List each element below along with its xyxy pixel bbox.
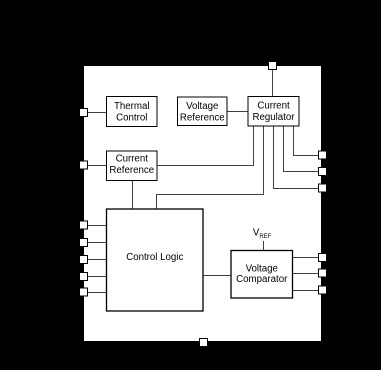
pin left 1: [80, 109, 88, 117]
block Current Reference: [107, 151, 158, 181]
svg-text:Reference: Reference: [180, 113, 225, 124]
svg-text:Regulator: Regulator: [252, 112, 295, 123]
pin right 2: [319, 168, 327, 176]
svg-text:Thermal: Thermal: [114, 101, 150, 112]
svg-text:Comparator: Comparator: [236, 274, 288, 285]
block Voltage Reference: [178, 97, 228, 126]
pin right 1: [319, 151, 327, 159]
pin right 4: [319, 254, 327, 262]
wire: Current Regulator to right pin 3: [274, 126, 319, 189]
wire: VREF stub to Voltage Comparator: [263, 241, 265, 251]
wire: left pin 5 to Control Logic: [84, 259, 107, 261]
pin left 6: [80, 273, 88, 281]
svg-text:Voltage: Voltage: [186, 101, 218, 112]
block Current Regulator: [248, 97, 299, 127]
pin right 6: [319, 286, 327, 294]
wire: left pin 4 to Control Logic: [84, 242, 107, 244]
wire: Voltage Comparator to right pin 5: [293, 273, 319, 275]
svg-text:Voltage: Voltage: [246, 264, 278, 275]
pin right 3: [319, 184, 327, 192]
svg-text:Control Logic: Control Logic: [126, 252, 183, 263]
wire: Current Regulator to Control Logic: [157, 126, 264, 209]
wire: top pin to Current Regulator: [272, 66, 274, 98]
pin left 2: [80, 161, 88, 169]
wire: Voltage Reference to Current Regulator: [227, 111, 248, 113]
node VREF label: [253, 228, 272, 241]
pin left 3: [80, 221, 88, 229]
pin left 4: [80, 239, 88, 247]
block Voltage Comparator: [231, 251, 293, 299]
wire: Current Regulator to right pin 2: [284, 126, 319, 172]
wire: Current Reference to Current Regulator: [157, 126, 254, 166]
svg-text:Control: Control: [116, 113, 147, 124]
wire: left pin 2 to Current Reference: [84, 165, 107, 167]
wire: left pin 7 to Control Logic: [84, 292, 107, 294]
wire: left pin 3 to Control Logic: [84, 225, 107, 227]
wire: Control Logic to Voltage Comparator: [203, 275, 232, 277]
block Control Logic: [107, 209, 204, 311]
pin top: [269, 62, 277, 70]
wire: left pin 6 to Control Logic: [84, 276, 107, 278]
wire: Voltage Comparator to right pin 4: [293, 257, 319, 259]
svg-text:Current: Current: [116, 153, 149, 164]
IC body outline: [84, 66, 322, 342]
svg-text:Current: Current: [257, 101, 290, 112]
wire: Current Reference to Control Logic: [132, 181, 134, 210]
wire: Current Regulator to right pin 1: [294, 126, 319, 156]
svg-text:REF: REF: [259, 234, 271, 240]
pin right 5: [319, 269, 327, 277]
wire: Voltage Comparator to right pin 6: [293, 290, 319, 292]
pin left 7: [80, 288, 88, 296]
pin bottom: [200, 339, 208, 347]
wire: left pin 1 to Thermal Control: [84, 112, 107, 114]
block Thermal Control: [107, 97, 158, 127]
pin left 5: [80, 256, 88, 264]
svg-text:Reference: Reference: [109, 165, 154, 176]
